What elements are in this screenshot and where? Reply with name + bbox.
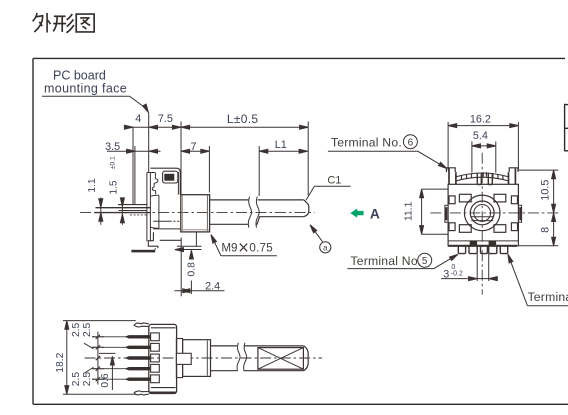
hidden terminal lines inside body <box>153 220 169 222</box>
locating lug bottom view <box>176 353 191 364</box>
dimension 0.6 <box>99 352 115 354</box>
pin 2 bottom view <box>92 346 126 348</box>
corner rivet top-left <box>449 196 455 204</box>
bushing circle <box>464 195 500 231</box>
svg-text:M9: M9 <box>221 242 237 255</box>
pitch ticks <box>92 337 104 379</box>
label PC board mounting face <box>44 69 127 96</box>
bottom terminal 4 <box>489 246 497 254</box>
body inner bottom line <box>448 240 518 242</box>
pin 5 bottom view <box>92 378 126 380</box>
svg-text:5.4: 5.4 <box>473 130 488 142</box>
vertical centerline front view <box>481 153 483 295</box>
title 外形图 glyph 外 <box>33 13 51 33</box>
snap hook top <box>134 323 149 327</box>
leader PC board mounting face <box>42 96 148 109</box>
svg-text:2.5: 2.5 <box>82 322 93 337</box>
rivet squares above bottom edge <box>470 241 477 246</box>
pin 4 bottom view <box>92 368 126 370</box>
shaft flat chords <box>471 217 494 221</box>
svg-text:7: 7 <box>190 141 196 153</box>
shaft circle <box>470 201 494 225</box>
top bracket spring band lower arc <box>456 177 509 181</box>
shaft end chamfer C1 <box>304 200 309 217</box>
dimension 10.5 / 8 extension lines <box>519 170 558 246</box>
dimension 1.5±0.1 <box>121 198 123 225</box>
drawing frame border <box>33 58 568 404</box>
shaft end face circle <box>474 205 491 222</box>
clip window on body <box>163 171 178 183</box>
svg-text:2.5: 2.5 <box>71 322 82 337</box>
terminal pins (side view, edge on) <box>96 207 151 209</box>
svg-text:11.1: 11.1 <box>404 201 415 221</box>
side tab left <box>445 205 448 222</box>
table fragment at right edge <box>565 104 568 152</box>
centerline bottom view <box>85 357 322 359</box>
svg-text:L±0.5: L±0.5 <box>227 112 258 126</box>
body bottom thick edge <box>448 245 517 247</box>
body inner mold lines <box>151 328 176 388</box>
corner rivet bottom-right <box>511 223 517 231</box>
svg-text:0.8: 0.8 <box>187 262 198 277</box>
horizontal centerline front view <box>430 212 558 214</box>
leaders for 2.5 <box>84 343 94 373</box>
dimension line 4 / 7.5 / L±0.5 <box>125 126 308 128</box>
bracket flank top-left <box>459 194 471 202</box>
svg-text:Terminal No.: Terminal No. <box>331 135 402 149</box>
side view : extension line snap leg tip <box>134 146 136 205</box>
svg-text:PC board: PC board <box>53 69 106 83</box>
detail mark a <box>320 242 331 253</box>
dimension 18.2 <box>63 321 136 395</box>
bottom terminal 1 <box>458 246 465 254</box>
svg-text:18.2: 18.2 <box>55 352 66 372</box>
svg-text:L1: L1 <box>275 139 287 151</box>
shaft end bottom view <box>304 346 309 371</box>
shaft bottom view <box>211 346 237 371</box>
side view : extension line bushing end <box>208 146 210 193</box>
centerline of shaft (side view) <box>80 211 315 213</box>
pot body outline (side view) <box>150 168 180 194</box>
dimension 7 (bushing length) <box>181 150 209 152</box>
svg-text:a: a <box>323 243 328 253</box>
body left silhouette details <box>152 173 157 195</box>
svg-text:5: 5 <box>422 256 428 267</box>
dimension 3 -0.2 <box>477 254 489 281</box>
center prong notch right <box>488 173 492 185</box>
corner rivet bottom-left <box>449 223 455 231</box>
dimension 0.8 <box>190 250 192 294</box>
bushing M9 (side view) <box>181 195 210 232</box>
pin pitch chain dimension line <box>97 332 99 385</box>
center prong notch left <box>477 173 481 185</box>
bottom terminal 2 <box>469 246 477 254</box>
dimension L1 <box>259 150 308 152</box>
dimension 11.1 <box>422 189 449 234</box>
shaft break marks bottom view <box>237 343 240 371</box>
top bracket right post <box>509 168 518 172</box>
svg-text:mounting face: mounting face <box>44 82 127 96</box>
front view body square <box>448 184 518 246</box>
svg-text:3: 3 <box>443 269 449 281</box>
svg-text:7.5: 7.5 <box>158 113 173 125</box>
dimension 3.5 <box>107 150 161 152</box>
view arrow A (green) <box>350 209 363 218</box>
side view : extension line body front face <box>180 122 182 297</box>
dimension 1.1 (terminal gap) <box>100 198 102 225</box>
side view : PC board mounting face line <box>148 113 150 173</box>
shaft break marks <box>248 197 251 228</box>
svg-text:A: A <box>370 206 380 221</box>
bottom terminal 5 <box>500 246 507 254</box>
bottom snap tab (black bar) <box>131 250 155 253</box>
side tab right <box>518 205 521 222</box>
svg-text:Terminal No.: Terminal No. <box>528 290 568 304</box>
title 外形图 glyph 图 <box>76 14 94 32</box>
bottom terminal 3 <box>481 246 488 254</box>
top bracket left post <box>446 168 455 172</box>
svg-text:8: 8 <box>540 227 552 233</box>
PC board (edge view) <box>147 173 155 242</box>
locating lug under bushing <box>195 232 197 246</box>
bracket flank bottom-right <box>494 225 506 233</box>
side view : extension line shaft end <box>307 122 309 196</box>
shaft flat region (crossed) <box>258 348 304 370</box>
svg-text:0.6: 0.6 <box>100 373 111 388</box>
svg-text:6: 6 <box>408 138 414 149</box>
svg-text:0.75: 0.75 <box>249 242 273 255</box>
dimension 2.4 <box>175 290 225 292</box>
svg-text:-0.2: -0.2 <box>451 271 463 278</box>
dimension line 10.5 and 8 <box>553 170 555 246</box>
terminal base notches <box>151 333 160 341</box>
dimension 16.2 <box>448 122 518 171</box>
svg-text:±0.1: ±0.1 <box>110 156 117 169</box>
bottom view body block <box>149 324 177 393</box>
svg-text:10.5: 10.5 <box>540 180 552 201</box>
svg-text:Terminal No.: Terminal No. <box>350 254 421 268</box>
snap hook bottom <box>134 391 149 395</box>
svg-text:16.2: 16.2 <box>470 113 491 125</box>
top bracket spring band upper arc <box>456 173 509 177</box>
svg-text:4: 4 <box>135 113 141 125</box>
side view : extension line flat start <box>258 146 260 196</box>
corner rivet top-right <box>511 196 517 204</box>
svg-text:2.5: 2.5 <box>82 372 93 387</box>
body lower bracket step <box>148 232 158 250</box>
svg-text:3.5: 3.5 <box>105 141 120 153</box>
svg-text:1.5: 1.5 <box>109 180 120 195</box>
svg-text:2.5: 2.5 <box>71 372 82 387</box>
svg-text:C1: C1 <box>327 175 341 187</box>
clip (black) <box>164 174 174 181</box>
svg-text:1.1: 1.1 <box>87 178 98 193</box>
dimension 5.4 <box>472 142 496 173</box>
pin 3 bottom view <box>125 356 151 359</box>
bracket flank top-right <box>494 194 506 202</box>
pin 1 bottom view <box>92 336 126 338</box>
bushing flange bottom view <box>176 339 182 378</box>
bracket flank bottom-left <box>459 225 471 233</box>
bushing bottom view <box>183 340 211 377</box>
shaft section 1 <box>210 200 249 224</box>
title 外形图 glyph 形 <box>53 14 74 33</box>
svg-text:2.4: 2.4 <box>205 280 220 292</box>
side view : extension line left of bracket legs <box>132 127 134 205</box>
shaft section 2 with flat <box>257 200 304 224</box>
band teeth <box>462 172 503 179</box>
